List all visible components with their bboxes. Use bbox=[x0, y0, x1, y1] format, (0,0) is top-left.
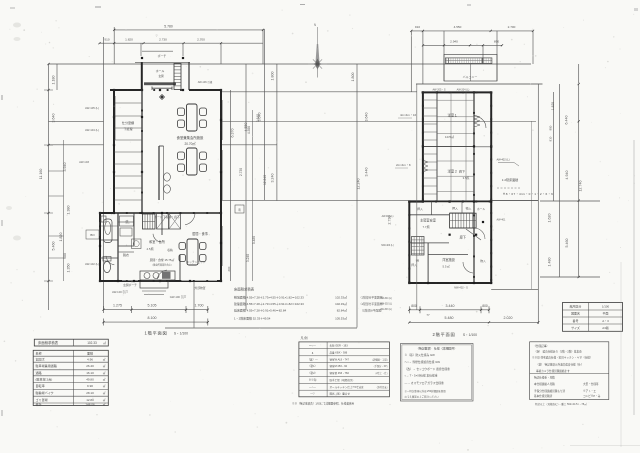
svg-text:3.640: 3.640 bbox=[365, 113, 369, 122]
svg-text:1.820: 1.820 bbox=[125, 38, 133, 42]
svg-text:102.33㎡: 102.33㎡ bbox=[335, 295, 347, 300]
svg-text:1.380: 1.380 bbox=[67, 206, 71, 215]
svg-text:寝室W AL9・747: 寝室W AL9・747 bbox=[330, 357, 350, 361]
svg-text:駐車場兼用通路: 駐車場兼用通路 bbox=[36, 363, 57, 368]
svg-text:押入: 押入 bbox=[452, 207, 458, 211]
svg-text:4m×4m・16: 4m×4m・16 bbox=[400, 113, 416, 117]
svg-text:2階平面図: 2階平面図 bbox=[432, 331, 455, 338]
svg-text:仕分室棚: 仕分室棚 bbox=[122, 120, 134, 125]
svg-text:洋室施設: 洋室施設 bbox=[442, 257, 455, 262]
svg-text:㎡: ㎡ bbox=[103, 364, 106, 368]
svg-text:※※印 住宅遮音仕様・家具キッチン・ヤマ（仕様）: ※※印 住宅遮音仕様・家具キッチン・ヤマ（仕様） bbox=[532, 356, 592, 360]
svg-text:㎡: ㎡ bbox=[103, 391, 106, 395]
svg-text:2m×4m・8: 2m×4m・8 bbox=[396, 163, 411, 167]
svg-text:特記仕様重・見積: 特記仕様重・見積 bbox=[534, 376, 555, 380]
svg-text:3.440: 3.440 bbox=[365, 168, 369, 177]
svg-text:駐輪場バイク: 駐輪場バイク bbox=[36, 390, 54, 395]
svg-text:AW-401: AW-401 bbox=[497, 219, 507, 222]
svg-text:77: 77 bbox=[426, 313, 430, 317]
svg-text:（基） 特記事項以外適合遮音仕様（仕）: （基） 特記事項以外適合遮音仕様（仕） bbox=[536, 363, 583, 367]
svg-text:AW-205・S: AW-205・S bbox=[432, 89, 445, 92]
svg-text:800: 800 bbox=[411, 304, 417, 308]
svg-text:3.640: 3.640 bbox=[256, 114, 260, 122]
svg-text:玄関: 玄関 bbox=[158, 74, 164, 78]
svg-text:AW-104 (L): AW-104 (L) bbox=[85, 128, 99, 132]
svg-text:7.7庖: 7.7庖 bbox=[422, 224, 429, 229]
svg-text:800: 800 bbox=[482, 304, 488, 308]
svg-text:6.440: 6.440 bbox=[565, 116, 569, 125]
svg-text:4.550: 4.550 bbox=[454, 25, 462, 29]
svg-text:16.10: 16.10 bbox=[86, 371, 94, 375]
svg-text:居間・食堂 15.75㎡: 居間・食堂 15.75㎡ bbox=[150, 258, 175, 262]
svg-text:900: 900 bbox=[63, 253, 67, 259]
svg-text:1.700: 1.700 bbox=[195, 304, 204, 308]
svg-text:―○―: ―○― bbox=[309, 386, 316, 389]
svg-text:（集会所兼部分含む）: （集会所兼部分含む） bbox=[151, 263, 173, 267]
svg-text:2.700: 2.700 bbox=[508, 25, 516, 29]
svg-text:5.460: 5.460 bbox=[565, 239, 569, 248]
svg-text:▽: ▽ bbox=[156, 35, 158, 38]
svg-text:S・1/100: S・1/100 bbox=[174, 331, 188, 335]
svg-text:寝室M 453・92: 寝室M 453・92 bbox=[330, 364, 348, 368]
svg-text:102.33㎡: 102.33㎡ bbox=[335, 301, 347, 306]
svg-text:※（基）防火仕様み GW: ※（基）防火仕様み GW bbox=[405, 353, 436, 357]
svg-text:3.240: 3.240 bbox=[246, 254, 250, 262]
svg-text:居間・食事: 居間・食事 bbox=[192, 231, 208, 236]
svg-text:1.350: 1.350 bbox=[67, 264, 71, 273]
svg-text:オールキッチン仕上7.5寸法含: オールキッチン仕上7.5寸法含 bbox=[330, 385, 365, 389]
svg-text:（詳細図・工場）: （詳細図・工場） bbox=[371, 357, 389, 361]
svg-text:〜○→ 界壁仕様遮音仕様 GW: 〜○→ 界壁仕様遮音仕様 GW bbox=[405, 360, 441, 364]
svg-text:11.160: 11.160 bbox=[39, 169, 43, 180]
svg-text:3.440: 3.440 bbox=[446, 304, 455, 308]
svg-text:AW-301 (L): AW-301 (L) bbox=[382, 215, 394, 218]
svg-text:玄関ポーチ: 玄関ポーチ bbox=[123, 283, 137, 287]
svg-text:28.10: 28.10 bbox=[86, 391, 94, 395]
svg-text:5.5㎡: 5.5㎡ bbox=[442, 264, 449, 269]
svg-text:物入: 物入 bbox=[480, 259, 486, 263]
svg-text:1.800: 1.800 bbox=[271, 72, 275, 81]
svg-text:建築面積 4.55×7.28＋2.73×4.55＋0.91: 建築面積 4.55×7.28＋2.73×4.55＋0.91×1.82＝102.3… bbox=[234, 301, 304, 306]
svg-text:9.90: 9.90 bbox=[87, 384, 93, 388]
svg-text:AW-102 (L): AW-102 (L) bbox=[85, 262, 99, 266]
svg-text:コンビ※P・み: コンビ※P・み bbox=[583, 394, 601, 398]
svg-text:㎡: ㎡ bbox=[103, 357, 106, 361]
svg-text:2.700: 2.700 bbox=[197, 38, 205, 42]
svg-text:寝室他 453・782: 寝室他 453・782 bbox=[330, 371, 350, 375]
svg-text:廊下: 廊下 bbox=[459, 169, 465, 174]
svg-text:電: 電 bbox=[238, 208, 241, 212]
svg-text:キッチンセット: キッチンセット bbox=[186, 260, 205, 264]
svg-text:（特記事項） 仕様（詳細図共）: （特記事項） 仕様（詳細図共） bbox=[416, 346, 457, 351]
svg-text:12.240: 12.240 bbox=[357, 179, 361, 190]
svg-text:（1階部分平面図共）: （1階部分平面図共） bbox=[359, 302, 385, 306]
svg-text:ゴミ置場: ゴミ置場 bbox=[36, 397, 48, 402]
svg-text:4.96: 4.96 bbox=[87, 357, 93, 361]
svg-text:1階平面図: 1階平面図 bbox=[144, 329, 167, 336]
svg-text:890: 890 bbox=[494, 39, 499, 43]
svg-text:AW-100 引戸: AW-100 引戸 bbox=[112, 290, 128, 294]
svg-text:バルコニー: バルコニー bbox=[463, 75, 478, 79]
svg-text:A3版: A3版 bbox=[602, 325, 609, 330]
svg-text:（1階部分平面図共）: （1階部分平面図共） bbox=[359, 296, 385, 300]
svg-text:148.06: 148.06 bbox=[85, 402, 95, 406]
svg-text:5.480: 5.480 bbox=[445, 316, 454, 320]
svg-text:（1階部分平面図）: （1階部分平面図） bbox=[360, 309, 384, 313]
svg-text:ホール: ホール bbox=[156, 68, 165, 73]
svg-text:㎡: ㎡ bbox=[103, 341, 106, 345]
svg-text:BO: BO bbox=[90, 233, 95, 237]
svg-text:N: N bbox=[314, 23, 317, 27]
svg-text:102.33: 102.33 bbox=[87, 341, 97, 345]
svg-text:収納: 収納 bbox=[167, 248, 173, 252]
svg-text:MW-402・S: MW-402・S bbox=[454, 287, 468, 290]
svg-text:890: 890 bbox=[549, 125, 553, 130]
svg-text:5.105: 5.105 bbox=[148, 304, 157, 308]
svg-text:(駐車場 2台): (駐車場 2台) bbox=[36, 376, 53, 381]
svg-text:名称: 名称 bbox=[36, 350, 42, 355]
svg-text:外部物置: 外部物置 bbox=[195, 286, 206, 290]
svg-text:4.550: 4.550 bbox=[247, 126, 251, 134]
svg-text:5.480: 5.480 bbox=[252, 236, 256, 244]
svg-text:1:2階床面積: 1:2階床面積 bbox=[502, 177, 518, 182]
svg-text:AW-204 (L): AW-204 (L) bbox=[457, 89, 470, 92]
svg-text:㎡: ㎡ bbox=[103, 377, 106, 381]
svg-text:自転車: 自転車 bbox=[36, 383, 45, 388]
svg-text:本仕様連絡人見積: 本仕様連絡人見積 bbox=[534, 382, 555, 386]
svg-text:12.240: 12.240 bbox=[263, 175, 267, 185]
svg-text:MW-403 (L): MW-403 (L) bbox=[381, 245, 393, 247]
svg-text:主寝室安室: 主寝室安室 bbox=[420, 218, 436, 223]
svg-text:1/100: 1/100 bbox=[602, 304, 610, 308]
svg-text:図面名: 図面名 bbox=[571, 311, 580, 316]
svg-text:AW-402 (L): AW-402 (L) bbox=[496, 158, 509, 162]
svg-text:（新2）: （新2） bbox=[308, 371, 317, 375]
svg-text:脱衣: 脱衣 bbox=[123, 252, 129, 257]
svg-text:3.940: 3.940 bbox=[63, 163, 67, 172]
svg-text:AW-106 引違: AW-106 引違 bbox=[198, 80, 213, 84]
svg-text:（仕様記事）: （仕様記事） bbox=[533, 344, 549, 348]
svg-text:5.780: 5.780 bbox=[164, 24, 173, 28]
svg-text:4.940: 4.940 bbox=[565, 171, 569, 180]
svg-text:〜○―: 〜○― bbox=[309, 344, 316, 347]
svg-text:下処理: 下処理 bbox=[124, 126, 133, 131]
svg-text:（改）→ セッコウボード 遮音仕様重: （改）→ セッコウボード 遮音仕様重 bbox=[405, 367, 451, 371]
svg-text:名称 GER・193: 名称 GER・193 bbox=[330, 343, 349, 347]
svg-text:1.800: 1.800 bbox=[351, 73, 355, 82]
svg-text:（新1）: （新1） bbox=[308, 364, 317, 368]
svg-text:敷地面積 4.55×7.28＋2.73×4.55＋0.91: 敷地面積 4.55×7.28＋2.73×4.55＋0.91×1.82＝102.3… bbox=[234, 295, 304, 300]
svg-text:※※印: ※※印 bbox=[309, 378, 317, 382]
svg-text:10.5㎡: 10.5㎡ bbox=[445, 134, 454, 139]
svg-text:2.730: 2.730 bbox=[239, 168, 243, 176]
svg-text:3.5庖: 3.5庖 bbox=[463, 176, 470, 180]
svg-text:基本仕様見積済: 基本仕様見積済 bbox=[534, 394, 553, 398]
svg-text:1.180: 1.180 bbox=[52, 76, 56, 85]
svg-text:物入: 物入 bbox=[466, 207, 472, 211]
svg-text:（新） 遮音仕様あり（1階・2階）基本め: （新） 遮音仕様あり（1階・2階）基本め bbox=[534, 349, 582, 353]
svg-text:平面: 平面 bbox=[603, 312, 609, 316]
svg-text:※8・07・411・0・1・2・6・6: ※8・07・411・0・1・2・6・6 bbox=[503, 192, 554, 196]
svg-text:8.100: 8.100 bbox=[148, 316, 157, 320]
svg-text:面積: 面積 bbox=[87, 350, 93, 355]
svg-text:―▽: ―▽ bbox=[310, 393, 316, 396]
svg-text:押入: 押入 bbox=[411, 263, 417, 267]
svg-text:※アト・エ: ※アト・エ bbox=[583, 389, 596, 393]
svg-text:廊下: 廊下 bbox=[460, 235, 466, 240]
svg-text:手保分仕様連絡見積もり済: 手保分仕様連絡見積もり済 bbox=[534, 389, 566, 393]
svg-text:大臣・仕様等: 大臣・仕様等 bbox=[583, 382, 599, 386]
svg-text:押入: 押入 bbox=[417, 207, 423, 211]
svg-text:品番 KBX・936: 品番 KBX・936 bbox=[330, 350, 348, 354]
svg-text:凡 例: 凡 例 bbox=[300, 335, 307, 340]
svg-text:―→ オスモフロアガラス仕様重: ―→ オスモフロアガラス仕様重 bbox=[405, 381, 444, 385]
svg-text:A・3: A・3 bbox=[602, 319, 609, 323]
svg-text:49.80: 49.80 bbox=[86, 377, 94, 381]
svg-text:3.240: 3.240 bbox=[271, 174, 275, 183]
svg-text:洋室２: 洋室２ bbox=[447, 169, 457, 174]
svg-text:ポーチ: ポーチ bbox=[158, 53, 167, 58]
svg-text:20.70㎡: 20.70㎡ bbox=[185, 141, 197, 146]
svg-text:810: 810 bbox=[549, 136, 553, 141]
svg-text:105.53㎡: 105.53㎡ bbox=[335, 316, 347, 321]
svg-text:4.5庖: 4.5庖 bbox=[146, 246, 153, 251]
svg-text:2.020: 2.020 bbox=[504, 316, 513, 320]
svg-text:▲: ▲ bbox=[311, 351, 314, 354]
svg-text:600: 600 bbox=[227, 266, 231, 271]
svg-text:のうえ確認の上ご発注ください: のうえ確認の上ご発注ください bbox=[405, 395, 440, 399]
svg-text:床面積求積表: 床面積求積表 bbox=[234, 287, 255, 292]
svg-text:1.620: 1.620 bbox=[548, 214, 552, 223]
svg-text:縮尺区分: 縮尺区分 bbox=[570, 303, 582, 308]
svg-text:12.740: 12.740 bbox=[579, 181, 583, 192]
svg-text:特記以上（見積含む）・重工 562×44.5×・78㎡: 特記以上（見積含む）・重工 562×44.5×・78㎡ bbox=[535, 402, 587, 406]
svg-text:1.820: 1.820 bbox=[59, 233, 63, 242]
svg-text:S・1/100: S・1/100 bbox=[463, 333, 477, 337]
svg-text:㎡: ㎡ bbox=[103, 371, 106, 375]
svg-text:2.730: 2.730 bbox=[159, 38, 167, 42]
svg-text:GW-100 引戸: GW-100 引戸 bbox=[170, 295, 187, 299]
svg-text:1.275: 1.275 bbox=[113, 304, 122, 308]
svg-text:事項カメラ仕様見積連絡ます: 事項カメラ仕様見積連絡ます bbox=[536, 369, 570, 373]
svg-text:AW-105 (L): AW-105 (L) bbox=[85, 106, 99, 110]
svg-text:階高（基）重合せ: 階高（基）重合せ bbox=[330, 392, 351, 396]
svg-text:（添付目安）: （添付目安） bbox=[375, 385, 389, 389]
svg-text:ホール: ホール bbox=[477, 207, 485, 211]
svg-text:㎡: ㎡ bbox=[103, 384, 106, 388]
svg-text:ホール下収納・廊下: ホール下収納・廊下 bbox=[154, 215, 180, 219]
svg-text:1.480: 1.480 bbox=[548, 258, 552, 267]
svg-text:和室・台所: 和室・台所 bbox=[149, 239, 165, 244]
svg-text:㎡: ㎡ bbox=[103, 398, 106, 402]
svg-text:床面積求積表: 床面積求積表 bbox=[38, 340, 59, 345]
svg-text:82.84㎡: 82.84㎡ bbox=[337, 308, 347, 313]
svg-text:※―特記事項以外は1/50詳細図を参照: ※―特記事項以外は1/50詳細図を参照 bbox=[405, 389, 447, 393]
svg-text:通路: 通路 bbox=[36, 370, 42, 375]
svg-text:26.40: 26.40 bbox=[86, 364, 94, 368]
svg-text:AW-103: AW-103 bbox=[79, 160, 89, 164]
svg-text:※※（特記事項含）1/50にて詳細図参照、仕様書併用: ※※（特記事項含）1/50にて詳細図参照、仕様書併用 bbox=[292, 402, 355, 406]
svg-text:2.940: 2.940 bbox=[450, 39, 458, 43]
svg-text:玄関ポ: 玄関ポ bbox=[36, 356, 45, 361]
svg-text:サイズ: サイズ bbox=[571, 325, 580, 330]
svg-text:洋室１: 洋室１ bbox=[447, 113, 457, 118]
svg-text:番号: 番号 bbox=[573, 318, 579, 323]
svg-text:1・2階床面積 52.33＋49.54: 1・2階床面積 52.33＋49.54 bbox=[234, 316, 271, 321]
svg-text:○→ T・5×09仕様 本仕様重: ○→ T・5×09仕様 本仕様重 bbox=[405, 374, 438, 378]
svg-text:食堂兼集会所施設: 食堂兼集会所施設 bbox=[177, 135, 204, 140]
svg-text:5.460: 5.460 bbox=[52, 242, 56, 251]
svg-text:1.820: 1.820 bbox=[551, 102, 555, 110]
svg-text:UB: UB bbox=[416, 260, 420, 263]
svg-text:延床面積 4.55×7.28＋0.91×5.46＝82.8: 延床面積 4.55×7.28＋0.91×5.46＝82.84 bbox=[234, 308, 286, 313]
svg-text:㎡: ㎡ bbox=[103, 402, 106, 406]
svg-text:（手保分・FP）: （手保分・FP） bbox=[372, 364, 389, 368]
svg-text:910: 910 bbox=[415, 25, 420, 29]
svg-text:取手工場（現場指示）: 取手工場（現場指示） bbox=[330, 378, 355, 382]
svg-text:（改）―: （改）― bbox=[307, 357, 318, 361]
svg-text:（2仕上・仕）: （2仕上・仕） bbox=[374, 371, 389, 375]
svg-text:合計: 合計 bbox=[36, 401, 42, 406]
